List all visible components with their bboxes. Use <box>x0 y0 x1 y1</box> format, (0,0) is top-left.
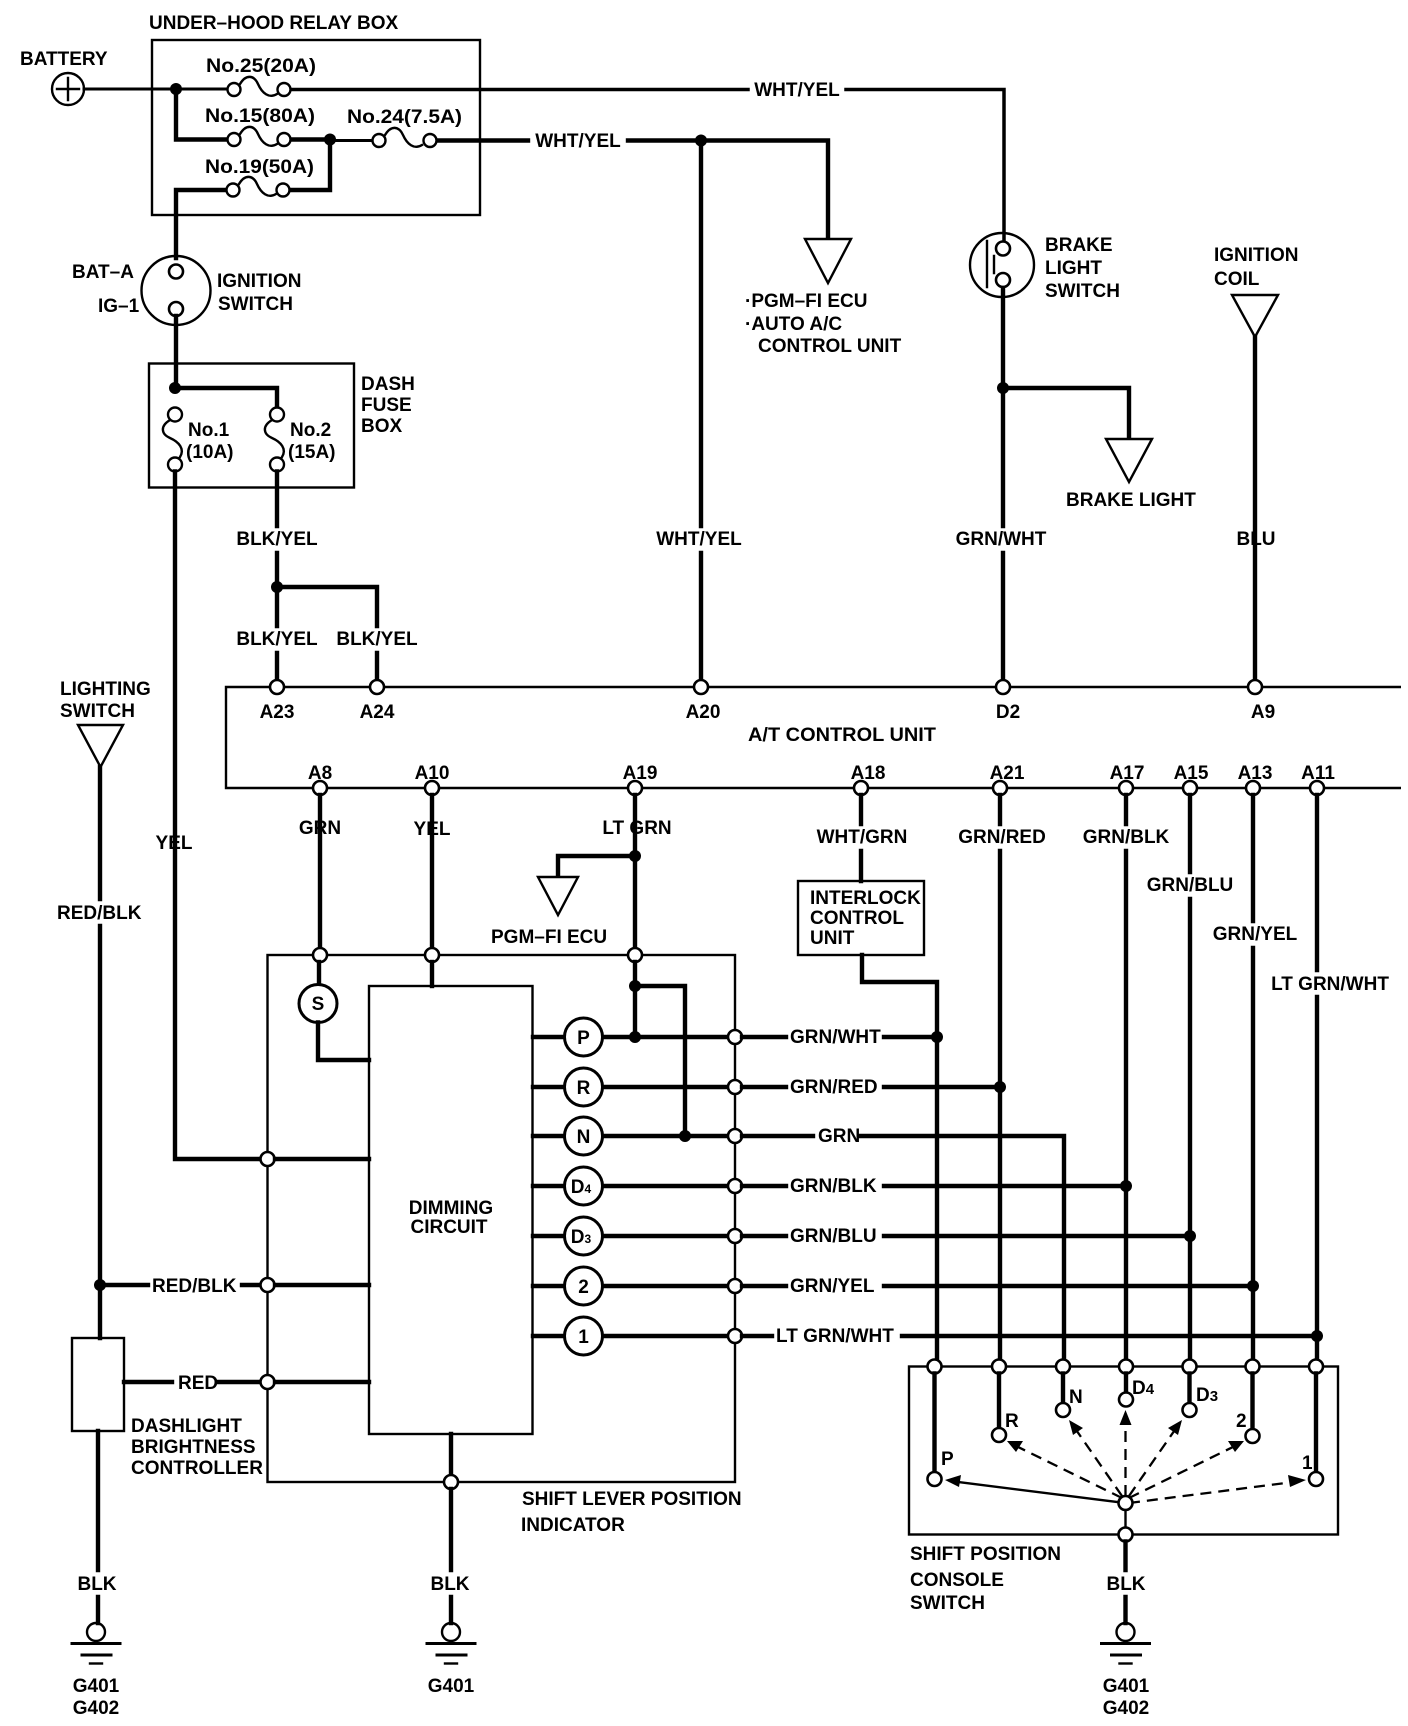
svg-text:A9: A9 <box>1251 702 1275 723</box>
svg-text:BRAKE LIGHT: BRAKE LIGHT <box>1066 490 1196 511</box>
wire junction to brake light arrow <box>1003 388 1129 452</box>
wire lighting switch to controller <box>98 1285 102 1338</box>
svg-text:WHT/YEL: WHT/YEL <box>754 80 840 101</box>
interlock control unit <box>798 881 924 955</box>
wire fuse No.1 down YEL to indicator <box>175 472 260 1160</box>
under-hood relay box <box>152 40 480 215</box>
svg-text:P: P <box>577 1028 590 1049</box>
node GRN/BLU to A15 wire <box>1184 1230 1196 1242</box>
wire lighting switch down RED/BLK <box>98 767 102 1285</box>
node BLK/YEL split junction <box>271 581 283 593</box>
node LT GRN junction to PGM-FI ECU <box>629 850 641 862</box>
svg-text:A11: A11 <box>1301 763 1335 784</box>
node dash fuse feed junction <box>169 382 181 394</box>
pin N console top <box>1056 1360 1070 1374</box>
svg-text:RED: RED <box>178 1373 218 1394</box>
node GRN/WHT to interlock wire <box>931 1031 943 1043</box>
shift lever position indicator box <box>268 955 736 1482</box>
svg-text:SWITCH: SWITCH <box>218 294 293 315</box>
wire LT GRN pin down to P row <box>633 962 637 1037</box>
ground G401/G402 right <box>1102 1623 1150 1664</box>
lamp D4 <box>533 1167 728 1205</box>
svg-text:BLK/YEL: BLK/YEL <box>336 629 418 650</box>
svg-text:GRN/YEL: GRN/YEL <box>790 1276 875 1297</box>
svg-text:LT GRN/WHT: LT GRN/WHT <box>1271 974 1389 995</box>
label PGM-FI ECU list <box>745 291 902 357</box>
svg-text:IG–1: IG–1 <box>98 296 140 317</box>
dashlight brightness controller label <box>131 1416 263 1479</box>
svg-text:BLK/YEL: BLK/YEL <box>236 629 318 650</box>
contact R <box>992 1428 1006 1442</box>
pin A13 <box>1246 781 1260 795</box>
contact N <box>1056 1403 1070 1417</box>
pin R indicator right <box>728 1080 742 1094</box>
pin P indicator right <box>728 1030 742 1044</box>
svg-text:A23: A23 <box>260 702 295 723</box>
svg-text:SHIFT POSITION: SHIFT POSITION <box>910 1544 1061 1565</box>
svg-text:A13: A13 <box>1238 763 1273 784</box>
battery B1 <box>52 73 84 105</box>
wire A21 down GRN/RED <box>998 795 1002 1360</box>
wire A8 pin to lamp S <box>317 962 321 985</box>
svg-text:S: S <box>312 994 325 1015</box>
svg-text:BAT–A: BAT–A <box>72 262 134 283</box>
svg-text:1: 1 <box>578 1327 589 1348</box>
wire pivot to bottom pin <box>1124 1510 1126 1527</box>
wire battery to relay box <box>84 88 227 91</box>
lamp N <box>533 1117 728 1155</box>
shift position console switch box <box>909 1367 1338 1535</box>
pin R console top <box>992 1360 1006 1374</box>
svg-text:IGNITION: IGNITION <box>1214 245 1298 266</box>
wire LT GRN branch to N row <box>635 986 685 1136</box>
svg-text:GRN: GRN <box>299 818 341 839</box>
svg-text:BRAKE: BRAKE <box>1045 235 1113 256</box>
svg-text:SWITCH: SWITCH <box>910 1593 985 1614</box>
svg-text:No.15(80A): No.15(80A) <box>205 106 315 127</box>
wire interlock output to GRN/WHT row <box>862 955 937 1360</box>
node LT GRN branch at N row <box>679 1130 691 1142</box>
wire P pin to contact <box>932 1374 936 1473</box>
svg-text:GRN/WHT: GRN/WHT <box>956 529 1047 550</box>
svg-text:1: 1 <box>1302 1453 1313 1474</box>
wire A11 down LT GRN/WHT <box>1315 795 1319 1360</box>
svg-text:A17: A17 <box>1110 763 1145 784</box>
wire controller RED row <box>124 1380 260 1384</box>
svg-text:A15: A15 <box>1174 763 1209 784</box>
dash fuse box label <box>361 374 415 437</box>
svg-text:GRN/WHT: GRN/WHT <box>790 1027 881 1048</box>
pin D4 console top <box>1119 1360 1133 1374</box>
svg-text:YEL: YEL <box>414 819 451 840</box>
wire A18 down WHT/GRN <box>859 795 863 881</box>
wire A10 pin to dimming circuit <box>430 962 434 986</box>
fuse No.19 <box>227 177 290 197</box>
svg-text:A21: A21 <box>990 763 1025 784</box>
pin 1 indicator right <box>728 1329 742 1343</box>
svg-text:(10A): (10A) <box>186 442 234 463</box>
svg-text:PGM–FI ECU: PGM–FI ECU <box>491 927 607 948</box>
contact P <box>928 1472 942 1486</box>
wire D4 row GRN/BLK <box>742 1184 1126 1188</box>
wire RED/BLK row <box>100 1283 260 1287</box>
node No.15 output junction <box>324 134 336 146</box>
wire D3 pin to contact <box>1187 1374 1191 1404</box>
pin D3 console top <box>1183 1360 1197 1374</box>
fuse No.1 label <box>186 420 234 463</box>
svg-text:INTERLOCK: INTERLOCK <box>810 888 921 909</box>
wiper arm to P <box>945 1475 1126 1503</box>
wire lamp S to dimming circuit <box>318 1023 369 1061</box>
svg-text:CONTROLLER: CONTROLLER <box>131 1458 263 1479</box>
svg-text:LIGHT: LIGHT <box>1045 258 1102 279</box>
pin A17 <box>1119 781 1133 795</box>
svg-text:A24: A24 <box>360 702 395 723</box>
interlock control unit label <box>810 888 921 949</box>
wire 2 pin to contact <box>1250 1374 1254 1430</box>
ground G401 middle <box>427 1623 475 1664</box>
svg-text:BLK: BLK <box>77 1574 116 1595</box>
wire A13 down GRN/YEL <box>1251 795 1255 1360</box>
wire No.19 left side down to ignition switch <box>176 190 225 258</box>
fuse No.1(10A) <box>163 408 182 472</box>
svg-text:UNIT: UNIT <box>810 928 855 949</box>
dimming circuit box <box>369 986 533 1434</box>
brake light switch labels <box>1045 235 1120 302</box>
svg-text:A10: A10 <box>415 763 450 784</box>
A/T control unit box <box>226 687 1401 788</box>
contact 1 <box>1309 1472 1323 1486</box>
pin RED indicator left <box>261 1375 275 1389</box>
pin P console top <box>928 1360 942 1374</box>
fuse No.15 <box>228 127 291 146</box>
svg-text:DIMMING: DIMMING <box>409 1198 493 1219</box>
wire N row GRN <box>742 1136 1064 1360</box>
svg-text:LT GRN/WHT: LT GRN/WHT <box>776 1326 894 1347</box>
svg-text:BLK/YEL: BLK/YEL <box>236 529 318 550</box>
svg-text:D2: D2 <box>996 702 1020 723</box>
svg-text:INDICATOR: INDICATOR <box>521 1515 625 1536</box>
pin A19 <box>628 781 642 795</box>
lamp D3 <box>533 1217 728 1255</box>
wire No.15 output to junction <box>292 137 330 141</box>
dashlight brightness controller <box>72 1338 124 1431</box>
svg-text:R: R <box>577 1078 591 1099</box>
svg-text:A19: A19 <box>623 763 658 784</box>
pin A21 <box>993 781 1007 795</box>
wire A19 down LT GRN <box>633 795 637 948</box>
pin A23 <box>270 680 284 694</box>
svg-text:GRN/BLK: GRN/BLK <box>790 1176 877 1197</box>
dashed selector to N <box>1069 1420 1122 1496</box>
ignition switch label <box>217 271 301 315</box>
ignition switch SW1 <box>142 256 211 325</box>
fuse No.2(15A) <box>265 408 284 472</box>
dashed selector to 1 <box>1129 1475 1306 1503</box>
brake light switch SW2 <box>970 233 1034 297</box>
svg-text:D3: D3 <box>1196 1385 1218 1406</box>
svg-text:G402: G402 <box>1103 1698 1149 1719</box>
node brake light junction <box>997 382 1009 394</box>
dimming circuit label <box>409 1198 493 1238</box>
svg-text:G402: G402 <box>73 1698 119 1719</box>
wire A15 down GRN/BLU <box>1188 795 1192 1360</box>
svg-text:P: P <box>941 1449 954 1470</box>
wire 1 pin to contact <box>1314 1374 1318 1473</box>
dashed selector to R <box>1007 1441 1122 1498</box>
svg-text:A/T CONTROL UNIT: A/T CONTROL UNIT <box>748 725 936 746</box>
svg-text:CONTROL: CONTROL <box>810 908 904 929</box>
svg-text:2: 2 <box>1236 1411 1247 1432</box>
wire console down BLK to ground <box>1123 1542 1127 1624</box>
pin D3 indicator right <box>728 1229 742 1243</box>
svg-text:BOX: BOX <box>361 416 403 437</box>
svg-text:G401: G401 <box>1103 1676 1150 1697</box>
svg-text:GRN/RED: GRN/RED <box>958 827 1046 848</box>
lamp 2 <box>533 1267 728 1305</box>
svg-text:CIRCUIT: CIRCUIT <box>410 1217 487 1238</box>
arrow from ignition coil <box>1232 295 1278 337</box>
node GRN/RED to A21 wire <box>994 1081 1006 1093</box>
svg-text:YEL: YEL <box>156 833 193 854</box>
wire D3 row GRN/BLU <box>742 1234 1190 1238</box>
wire RED/BLK pin to dimming circuit <box>275 1283 369 1287</box>
svg-text:·PGM–FI ECU: ·PGM–FI ECU <box>745 291 867 312</box>
pin A10 <box>425 781 439 795</box>
svg-text:RED/BLK: RED/BLK <box>57 903 142 924</box>
lamp R <box>533 1068 728 1106</box>
svg-text:A8: A8 <box>308 763 332 784</box>
dashed selector to D4 <box>1120 1410 1132 1496</box>
svg-text:N: N <box>577 1127 591 1148</box>
wire controller down BLK to ground <box>96 1431 100 1623</box>
arrow to brake light <box>1106 439 1152 482</box>
wire brake switch down GRN/WHT to D2 <box>1001 288 1005 680</box>
dashed selector to 2 <box>1129 1441 1244 1498</box>
wire junction down to A20 <box>699 141 703 681</box>
svg-text:WHT/YEL: WHT/YEL <box>656 529 742 550</box>
wire battery junction down to No.15 <box>176 89 226 140</box>
svg-text:No.25(20A): No.25(20A) <box>206 56 316 77</box>
svg-text:No.1: No.1 <box>188 420 230 441</box>
node battery junction <box>170 83 182 95</box>
wire junction to fuse No.2 <box>175 388 277 407</box>
wire junction to fuse No.24 <box>330 139 371 142</box>
svg-text:DASHLIGHT: DASHLIGHT <box>131 1416 242 1437</box>
pin A24 <box>370 680 384 694</box>
pin YEL indicator left <box>261 1152 275 1166</box>
pin YEL indicator top <box>425 948 439 962</box>
shift lever position indicator label <box>521 1489 742 1536</box>
contact pivot common <box>1119 1496 1133 1510</box>
svg-text:No.24(7.5A): No.24(7.5A) <box>347 107 462 128</box>
pin BLK console bottom <box>1119 1528 1133 1542</box>
fuse No.2 label <box>288 420 336 463</box>
arrow to PGM-FI ECU <box>538 877 578 915</box>
pin 1 console top <box>1309 1360 1323 1374</box>
svg-text:BLK: BLK <box>1106 1574 1145 1595</box>
svg-text:GRN/BLK: GRN/BLK <box>1083 827 1170 848</box>
wire indicator down BLK to ground <box>449 1489 453 1623</box>
pin RED/BLK indicator left <box>261 1278 275 1292</box>
lamp S <box>299 985 337 1023</box>
node RED/BLK junction <box>94 1279 106 1291</box>
svg-text:BLU: BLU <box>1236 529 1275 550</box>
wire D4 pin to contact <box>1124 1374 1128 1393</box>
node GRN/YEL to A13 wire <box>1247 1280 1259 1292</box>
pin A9 <box>1248 680 1262 694</box>
wire 2 row GRN/YEL <box>742 1284 1253 1288</box>
wire A17 down GRN/BLK <box>1124 795 1128 1360</box>
svg-text:LT GRN: LT GRN <box>602 818 671 839</box>
wire No.19 right side up to junction <box>291 140 330 191</box>
pin 2 indicator right <box>728 1279 742 1293</box>
svg-text:GRN/BLU: GRN/BLU <box>1147 875 1234 896</box>
ground label G401 G402 left <box>73 1676 120 1719</box>
wire ignition coil down BLU to A9 <box>1253 337 1257 680</box>
svg-text:GRN: GRN <box>818 1126 860 1147</box>
fuse No.24 <box>373 128 437 147</box>
svg-text:GRN/YEL: GRN/YEL <box>1213 924 1298 945</box>
svg-text:R: R <box>1005 1411 1019 1432</box>
svg-text:No.19(50A): No.19(50A) <box>205 157 314 178</box>
lamp P <box>533 1018 728 1056</box>
shift position console switch label <box>910 1544 1061 1614</box>
ignition coil label <box>1214 245 1298 290</box>
wire N pin to contact <box>1061 1374 1065 1404</box>
wire A10 down YEL <box>430 795 434 948</box>
svg-text:BRIGHTNESS: BRIGHTNESS <box>131 1437 256 1458</box>
svg-text:(15A): (15A) <box>288 442 336 463</box>
svg-text:CONSOLE: CONSOLE <box>910 1570 1004 1591</box>
contact D4 <box>1119 1393 1133 1407</box>
wire A8 down GRN <box>318 795 322 948</box>
node LT GRN/WHT to A11 wire <box>1311 1330 1323 1342</box>
pin A15 <box>1183 781 1197 795</box>
wire IG-1 down to dash fuse box <box>174 316 178 388</box>
wire R pin to contact <box>997 1374 1001 1429</box>
svg-text:2: 2 <box>578 1277 589 1298</box>
svg-text:COIL: COIL <box>1214 269 1260 290</box>
pin 2 console top <box>1246 1360 1260 1374</box>
wire BLK/YEL branch to A24 <box>277 587 377 680</box>
svg-text:IGNITION: IGNITION <box>217 271 301 292</box>
svg-text:GRN/BLU: GRN/BLU <box>790 1226 877 1247</box>
arrow to PGM-FI ECU / auto A/C <box>805 239 851 283</box>
wire fuse No.2 down BLK/YEL <box>275 472 279 681</box>
pin GRN indicator top <box>313 948 327 962</box>
svg-text:DASH: DASH <box>361 374 415 395</box>
wire R row GRN/RED <box>742 1085 1000 1089</box>
dashed selector to D3 <box>1129 1420 1182 1496</box>
wire No.24 output WHT/YEL <box>438 141 828 253</box>
dash fuse box <box>149 364 354 488</box>
contact D3 <box>1183 1403 1197 1417</box>
wire P row GRN/WHT <box>742 1035 937 1039</box>
svg-text:BLK: BLK <box>430 1574 469 1595</box>
lighting switch label <box>60 679 151 722</box>
contact 2 <box>1246 1429 1260 1443</box>
svg-text:CONTROL UNIT: CONTROL UNIT <box>758 336 902 357</box>
node LT GRN branch junction <box>629 980 641 992</box>
wire YEL pin to dimming circuit <box>275 1157 369 1161</box>
pin D2 <box>996 680 1010 694</box>
svg-text:No.2: No.2 <box>290 420 331 441</box>
node GRN/BLK to A17 wire <box>1120 1180 1132 1192</box>
svg-text:SHIFT LEVER POSITION: SHIFT LEVER POSITION <box>522 1489 742 1510</box>
pin A8 <box>313 781 327 795</box>
pin A18 <box>854 781 868 795</box>
pin A20 <box>694 680 708 694</box>
svg-text:BATTERY: BATTERY <box>20 49 108 70</box>
pin BLK indicator bottom <box>444 1475 458 1489</box>
wire 1 row LT GRN/WHT <box>742 1334 1317 1338</box>
fuse No.25 <box>228 77 291 96</box>
pin LT GRN indicator top <box>628 948 642 962</box>
svg-text:WHT/YEL: WHT/YEL <box>535 131 621 152</box>
wire dimming circuit down to indicator pin <box>449 1434 453 1475</box>
ground label G401 G402 right <box>1103 1676 1150 1719</box>
wire No.25 output WHT/YEL <box>292 90 1004 244</box>
ground G401/G402 left <box>72 1623 120 1664</box>
svg-text:SWITCH: SWITCH <box>60 701 135 722</box>
svg-text:A20: A20 <box>686 702 721 723</box>
svg-text:FUSE: FUSE <box>361 395 412 416</box>
svg-text:G401: G401 <box>428 1676 475 1697</box>
svg-text:·AUTO A/C: ·AUTO A/C <box>745 314 842 335</box>
svg-text:G401: G401 <box>73 1676 120 1697</box>
svg-text:SWITCH: SWITCH <box>1045 281 1120 302</box>
svg-text:A18: A18 <box>851 763 886 784</box>
svg-text:RED/BLK: RED/BLK <box>152 1276 237 1297</box>
pin A11 <box>1310 781 1324 795</box>
node LT GRN at P row <box>629 1031 641 1043</box>
wire RED pin to dimming circuit <box>275 1380 369 1384</box>
wire junction to PGM-FI ECU arrow <box>558 856 635 888</box>
node WHT/YEL junction to A20 <box>695 135 707 147</box>
svg-text:N: N <box>1069 1387 1083 1408</box>
pin N indicator right <box>728 1129 742 1143</box>
lamp 1 <box>533 1317 728 1355</box>
arrow from lighting switch <box>78 725 123 767</box>
svg-text:LIGHTING: LIGHTING <box>60 679 151 700</box>
svg-text:UNDER–HOOD RELAY BOX: UNDER–HOOD RELAY BOX <box>149 13 398 34</box>
svg-text:D4: D4 <box>1132 1378 1155 1399</box>
pin D4 indicator right <box>728 1179 742 1193</box>
svg-text:WHT/GRN: WHT/GRN <box>817 827 908 848</box>
svg-text:GRN/RED: GRN/RED <box>790 1077 878 1098</box>
